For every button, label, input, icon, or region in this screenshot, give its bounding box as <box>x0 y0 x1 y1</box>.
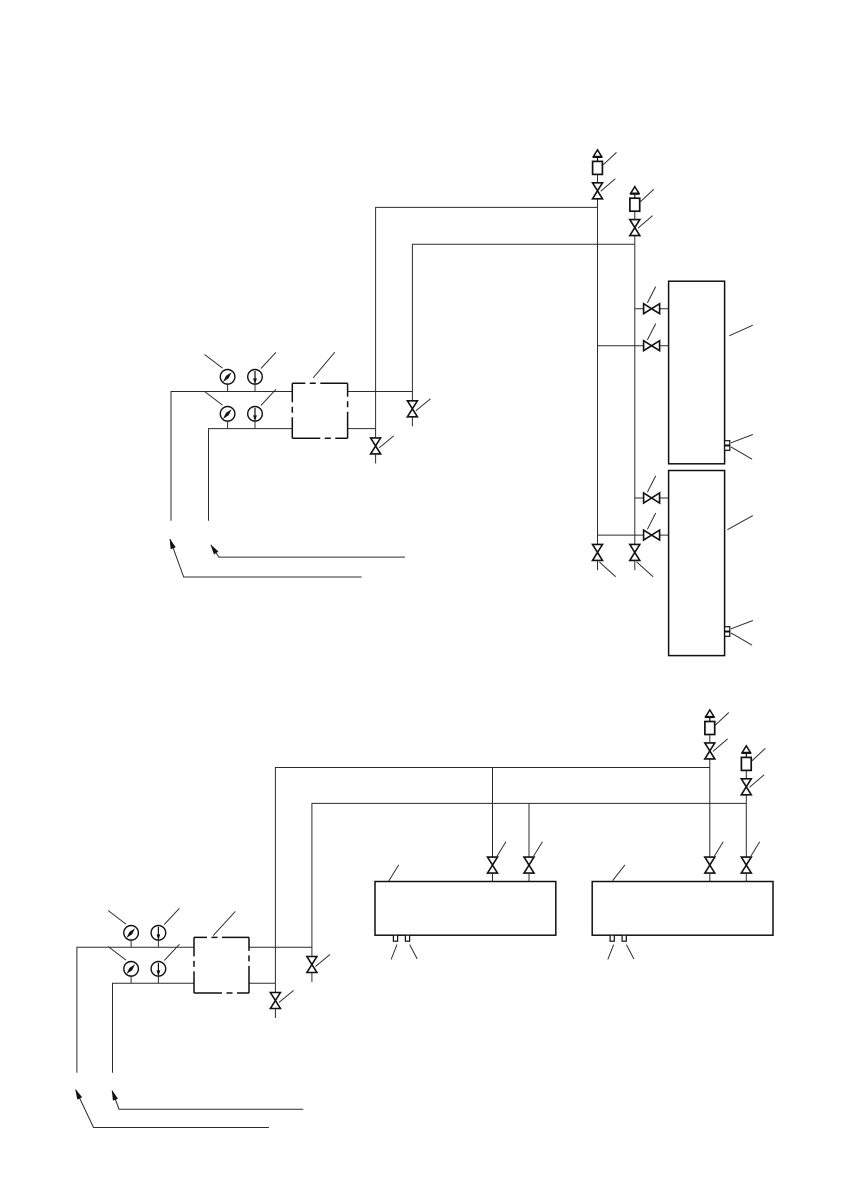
pipe: stem of pressure gauge PI4 <box>130 976 132 983</box>
air vent AV2 body <box>630 198 640 211</box>
tank T1 side connection lower flange <box>725 446 730 450</box>
leader line of pressure gauge PI1 <box>205 355 223 369</box>
pipe: stem of thermometer TI3 <box>157 940 159 947</box>
thermometer TI3 <box>151 926 166 941</box>
pressure gauge PI1 <box>220 370 235 385</box>
pipe: supply line from HX1 to left riser corner <box>171 392 292 521</box>
unit U2 drain stub B <box>622 935 626 941</box>
leader line of valve V6 <box>647 324 655 340</box>
pipe: stub below drain valve V10 <box>634 560 636 570</box>
pipe: left distribution pipe (down to drain) <box>597 207 599 544</box>
pipe: tank T2 upper branch <box>635 497 669 499</box>
pipe: stem of thermometer TI2 <box>254 421 256 429</box>
storage tank T2 <box>669 471 725 656</box>
drain valve V9 at bottom of left distribution pipe <box>593 544 603 560</box>
air vent AV3 outlet stem <box>709 717 711 721</box>
drain valve V4 on riser A <box>371 438 381 454</box>
pipe: riser B with header to vent pipe 2 <box>412 244 634 391</box>
unit U2 return valve V18 <box>741 857 751 873</box>
leader line of drain valve V13 on riser D <box>315 955 330 967</box>
tank T2 side connection lower flange <box>725 632 730 636</box>
leader line of pressure gauge PI4 <box>108 947 126 961</box>
leader line of unit U2 supply valve V17 <box>714 842 723 856</box>
isolation valve of air vent AV2 <box>630 220 640 236</box>
tank T2 lower isolation valve V8 <box>644 530 660 540</box>
pipe: tank T2 lower branch <box>598 534 669 536</box>
pipe: stub below unit U1 supply valve V15 <box>492 873 494 881</box>
leader line of unit U1 stub A <box>391 945 397 960</box>
pipe: HX1 outlet top run to riser B <box>348 391 413 393</box>
storage tank T1 <box>669 281 725 464</box>
heat exchanger HX1 (dash-dot outline) <box>292 383 347 438</box>
air vent AV2 outlet stem <box>634 194 636 198</box>
unit U1 drain stub B <box>405 935 409 941</box>
flow direction arrow (return, top section) <box>211 545 405 557</box>
pipe: unit U1 supply drop <box>492 768 494 858</box>
leader line of pressure gauge PI3 <box>108 911 126 925</box>
pipe: vent stem below valve (air vent AV2) <box>634 236 636 245</box>
leader line of unit U2 stub B <box>626 945 634 959</box>
leader line of unit U2 stub A <box>608 945 614 960</box>
leader line of pressure gauge PI2 <box>205 392 223 406</box>
isolation valve of air vent AV3 <box>705 743 715 759</box>
pipe: tank T1 upper branch <box>635 308 669 310</box>
leader line of drain valve V14 on riser C <box>279 991 294 1003</box>
leader line of drain valve V9 <box>599 562 615 577</box>
leader line of thermometer TI1 <box>261 352 276 368</box>
isolation valve of air vent AV1 <box>593 183 603 199</box>
air vent AV4 outlet stem <box>745 753 747 757</box>
leader line of tank T1 side connection (upper) <box>731 435 753 443</box>
pipe: stub above drain valve V3 on riser B <box>411 392 413 401</box>
pipe: supply line from HX2 to left riser corner <box>77 947 194 1072</box>
leader line of air vent AV2 valve <box>638 216 653 229</box>
flow direction arrow (supply, bottom section) <box>76 1090 269 1128</box>
air vent AV1 outlet stem <box>597 157 599 161</box>
tank T1 side connection upper flange <box>725 441 730 445</box>
leader line of tank T1 <box>729 325 753 336</box>
pipe: return line from HX1 to left riser corner <box>209 429 293 521</box>
pipe: stub above drain valve V13 on riser D <box>311 947 313 956</box>
pipe: stub below unit U1 return valve V16 <box>528 873 530 881</box>
leader line of valve V5 <box>647 287 655 303</box>
leader line of unit U1 return valve V16 <box>534 842 543 856</box>
leader line of air vent AV3 body <box>715 713 728 726</box>
pipe: HX2 outlet top run to riser D <box>249 946 312 948</box>
pipe: stem of thermometer TI4 <box>157 976 159 983</box>
pipe: HX1 outlet bottom run to riser A <box>348 428 376 430</box>
leader line of thermometer TI4 <box>164 944 179 960</box>
leader line of HX1 <box>313 352 335 378</box>
pipe: stub above drain valve V14 on riser C <box>274 983 276 992</box>
air vent AV4 outlet base line <box>741 752 751 754</box>
pipe: stub above drain valve V4 on riser A <box>375 429 377 438</box>
air vent AV3 outlet triangle (vent to atmosphere) <box>706 710 714 717</box>
air handling unit U1 <box>375 882 556 936</box>
air vent AV1 body <box>593 161 603 174</box>
pipe: right distribution pipe (down to drain) <box>634 244 636 544</box>
drain valve V10 at bottom of right distribution pipe <box>630 544 640 560</box>
pipe: vent stem below valve (air vent AV4) <box>745 795 747 804</box>
leader line of air vent AV1 body <box>603 152 616 165</box>
air vent AV1 outlet base line <box>593 156 603 158</box>
pressure gauge PI3 <box>124 926 139 941</box>
leader line of air vent AV2 body <box>640 189 653 202</box>
thermometer TI4 <box>151 962 166 977</box>
pipe: stem between valve and body (air vent AV4) <box>745 770 747 778</box>
air handling unit U2 <box>592 882 773 936</box>
leader line of drain valve V10 <box>637 562 653 577</box>
pipe: vent stem below valve (air vent AV3) <box>709 759 711 768</box>
pressure gauge PI2 <box>220 407 235 422</box>
air vent AV4 outlet triangle (vent to atmosphere) <box>742 746 750 753</box>
pipe: stem of pressure gauge PI2 <box>227 421 229 429</box>
unit U1 return valve V16 <box>524 857 534 873</box>
flow direction arrow (return, bottom section) <box>112 1091 303 1110</box>
tank T2 upper isolation valve V7 <box>644 493 660 503</box>
unit U1 drain stub A <box>393 935 397 941</box>
leader line of air vent AV1 valve <box>601 179 616 192</box>
pipe: riser D with second header <box>312 803 746 947</box>
leader line of tank T2 side connection (lower) <box>731 633 752 645</box>
air vent AV3 outlet base line <box>705 716 715 718</box>
pipe: HX2 outlet bottom run to riser C <box>249 982 275 984</box>
leader line of unit U2 return valve V18 <box>751 842 760 856</box>
leader line of thermometer TI3 <box>164 908 179 924</box>
pipe: stub below drain valve V13 on riser D <box>311 973 313 983</box>
pipe: stub below unit U2 return valve V18 <box>745 873 747 881</box>
pipe: stub below drain valve V3 on riser B <box>411 417 413 427</box>
air vent AV2 outlet base line <box>630 193 640 195</box>
air vent AV1 outlet triangle (vent to atmosphere) <box>593 150 601 157</box>
leader line of unit U2 <box>613 865 625 881</box>
air vent AV3 body <box>705 722 715 735</box>
unit U2 drain stub A <box>610 935 614 941</box>
isolation valve of air vent AV4 <box>741 779 751 795</box>
pipe: tank T1 lower branch <box>598 345 669 347</box>
pipe: stem between valve and body (air vent AV3) <box>709 735 711 743</box>
pipe: riser C with top header <box>275 768 709 984</box>
leader line of unit U1 <box>389 865 399 881</box>
pipe: return line from HX2 to left riser corner <box>113 983 195 1072</box>
leader line of drain valve V3 on riser B <box>416 399 431 411</box>
leader line of HX2 <box>213 911 235 935</box>
drain valve V13 on riser D <box>307 957 317 973</box>
leader line of air vent AV3 valve <box>713 739 728 752</box>
leader line of drain valve V4 on riser A <box>379 436 394 448</box>
pipe: stem of pressure gauge PI3 <box>130 940 132 947</box>
leader line of tank T1 side connection (lower) <box>731 447 752 459</box>
leader line of unit U1 supply valve V15 <box>497 842 506 856</box>
leader line of tank T2 side connection (upper) <box>731 621 753 629</box>
heat exchanger HX2 (dash-dot outline) <box>194 937 249 993</box>
unit U1 supply valve V15 <box>488 857 498 873</box>
pipe: riser A with top header to vent pipe <box>376 207 598 428</box>
pipe: stub below drain valve V4 on riser A <box>375 454 377 464</box>
flow direction arrow (supply, top section) <box>170 539 362 577</box>
thermometer TI2 <box>248 407 263 422</box>
pipe: unit U2 return drop <box>745 803 747 857</box>
drain valve V3 on riser B <box>407 401 417 417</box>
thermometer TI1 <box>248 370 263 385</box>
pipe: stem of pressure gauge PI1 <box>227 384 229 392</box>
pipe: stub below drain valve V14 on riser C <box>274 1009 276 1019</box>
leader line of valve V8 <box>647 513 655 529</box>
drain valve V14 on riser C <box>270 993 280 1009</box>
tank T2 side connection upper flange <box>725 627 730 631</box>
unit U2 supply valve V17 <box>705 857 715 873</box>
leader line of tank T2 <box>727 516 752 530</box>
leader line of air vent AV4 valve <box>750 775 765 788</box>
leader line of unit U1 stub B <box>410 945 418 959</box>
pipe: unit U2 supply drop <box>709 768 711 858</box>
leader line of air vent AV4 body <box>752 748 765 761</box>
tank T1 lower isolation valve V6 <box>644 341 660 351</box>
pipe: stub below drain valve V9 <box>597 560 599 570</box>
pipe: stem of thermometer TI1 <box>254 384 256 392</box>
air vent AV2 outlet triangle (vent to atmosphere) <box>631 187 639 194</box>
pressure gauge PI4 <box>124 962 139 977</box>
pipe: stem between valve and body (air vent AV2) <box>634 211 636 219</box>
pipe: stem between valve and body (air vent AV1) <box>597 174 599 182</box>
pipe: vent stem below valve (air vent AV1) <box>597 199 599 208</box>
air vent AV4 body <box>741 757 751 770</box>
pipe: unit U1 return drop <box>528 803 530 857</box>
leader line of thermometer TI2 <box>261 389 276 405</box>
leader line of valve V7 <box>647 476 655 492</box>
pipe: stub below unit U2 supply valve V17 <box>709 873 711 881</box>
tank T1 upper isolation valve V5 <box>644 304 660 314</box>
